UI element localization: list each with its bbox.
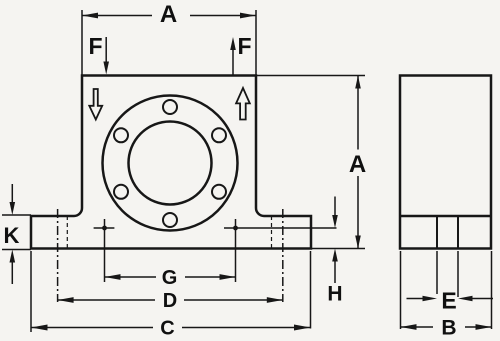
svg-text:F: F [237,33,251,59]
centerline left slot / D extension [57,209,59,302]
right center crosshair horizontal / H extension [224,227,337,229]
dimension A right: bottom arrowhead [355,236,361,249]
dimension K: bottom arrow [11,262,13,284]
bolt hole top [163,100,177,114]
svg-text:A: A [160,1,177,28]
bolt hole upper-left [114,128,128,142]
svg-text:H: H [327,283,342,306]
side view slot line right [457,216,459,249]
dimension A top: left arrowhead [82,13,98,19]
dimension E: left arrow [407,298,426,300]
bolt hole lower-left [114,185,128,199]
svg-text:F: F [88,33,102,59]
hidden line right slot edge [271,216,273,249]
dimension B: right arrowhead [476,324,492,330]
right center vertical / G extension [235,219,237,282]
dimension G: right arrowhead [220,274,236,280]
dimension B: left arrowhead [401,324,417,330]
dimension C: left extension line [30,251,32,332]
bolt hole upper-right [212,128,226,142]
svg-text:B: B [441,317,456,340]
dimension H: top arrow [334,197,336,217]
svg-text:C: C [160,318,174,340]
hidden line left slot edge [66,216,68,249]
svg-text:K: K [4,223,20,248]
dimension K: bottom extension line [2,249,31,251]
dimension G: left arrowhead [105,274,121,280]
dimension C: line right segment [182,327,311,329]
dimension C: line left segment [31,327,153,329]
dimension E: right extension line [457,251,459,297]
bolt hole lower-right [212,185,226,199]
bolt hole bottom [163,213,177,227]
dimension G: line left segment [105,276,157,278]
dimension A top: right arrowhead [240,13,256,19]
dimension A right: top arrowhead [355,76,361,89]
dimension C: right extension line [310,251,312,329]
dimension D: right arrowhead [267,297,283,303]
svg-text:G: G [162,267,178,289]
dimension A top: line right segment [190,15,256,17]
dimension K: top arrow [11,184,13,203]
svg-text:E: E [441,288,456,314]
dimension D: left arrowhead [58,297,74,303]
hollow force arrow up (right) [236,88,250,120]
dimension K: top extension line [2,214,31,216]
dimension A right: lower line segment [357,176,359,249]
arrow F left (down) [105,37,107,62]
side view slot line left [436,216,438,249]
left mounting hole center dot [102,226,107,231]
flange outer circle [103,96,238,231]
svg-text:D: D [163,290,177,312]
flange inner circle (bore) [129,122,212,205]
right mounting hole center dot [233,226,238,231]
dimension B: right extension line [491,251,493,329]
svg-text:A: A [349,151,366,178]
side view base top line [400,215,491,218]
left center crosshair horizontal [94,227,115,229]
side view outline [400,76,491,249]
dimension B: line left segment [401,326,434,328]
dimension D: line right segment [184,299,283,301]
dimension E: right arrow [471,298,493,300]
dimension D: line left segment [58,299,155,301]
dimension A right: upper line segment [357,76,359,150]
dimension B: left extension line [400,251,402,329]
dimension A right: top extension line [256,75,365,77]
dimension C: left arrowhead [31,325,48,331]
centerline right slot / D extension [282,209,284,302]
dimension B: line right segment [465,326,492,328]
dimension A top: right extension line [255,10,257,76]
dimension H: bottom arrow [334,261,336,283]
dimension A top: left extension line [81,10,83,76]
dimension A top: line left segment [82,15,152,17]
dimension G: line right segment [185,276,236,278]
arrow F right (up) [232,50,234,75]
dimension E: left extension line [436,251,438,294]
front view outline (body on base) [31,76,311,249]
left center vertical / G extension [104,219,106,282]
hollow force arrow down (left) [89,89,102,120]
dimension C: right arrowhead [294,325,311,331]
dimension A right: bottom extension line [311,248,365,250]
